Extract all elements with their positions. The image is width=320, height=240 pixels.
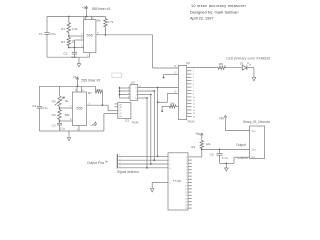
- svg-text:J13: J13: [125, 119, 130, 123]
- svg-text:R7: R7: [88, 91, 92, 95]
- svg-text:QB: QB: [119, 107, 123, 109]
- svg-text:12k: 12k: [206, 142, 211, 146]
- wire ground rail #1: [47, 56, 89, 58]
- svg-text:+5v: +5v: [90, 123, 95, 127]
- connector arrow mark: [106, 160, 109, 163]
- svg-text:Output Pins: Output Pins: [87, 161, 105, 165]
- wire junction to pin 7 #2: [59, 107, 61, 110]
- resistor R10 into U2: [162, 105, 169, 107]
- ground #1: [78, 57, 80, 64]
- wire R8 to D1: [226, 67, 243, 69]
- svg-text:555 timer #2: 555 timer #2: [82, 78, 101, 82]
- wire U3 pin stub in3: [120, 94, 131, 96]
- capacitor C3: [59, 121, 61, 123]
- svg-text:R6: R6: [97, 19, 101, 23]
- svg-text:555 timer #1: 555 timer #1: [92, 7, 111, 11]
- wire C1 to ground rail: [46, 35, 48, 57]
- svg-text:C1: C1: [39, 32, 43, 36]
- svg-text:R3: R3: [52, 100, 56, 104]
- wire R4 bottom junction: [59, 120, 61, 122]
- junction C5: [219, 149, 221, 151]
- resistor R7: [95, 90, 102, 93]
- svg-text:5k: 5k: [65, 99, 69, 103]
- resistor R8: [218, 66, 225, 69]
- wire bus line 1: [157, 88, 159, 157]
- svg-text:+5v: +5v: [73, 76, 79, 80]
- svg-text:C2: C2: [64, 52, 68, 56]
- svg-text:R9: R9: [191, 145, 195, 149]
- svg-text:C5: C5: [210, 152, 214, 156]
- wire signal 3: [118, 163, 168, 165]
- wire junction to pin 2: [69, 47, 84, 49]
- wire pin 8 stub #2: [76, 86, 78, 92]
- wire U2 to R8: [192, 67, 219, 69]
- svg-text:+5v: +5v: [219, 117, 225, 121]
- wire output drop b: [107, 105, 109, 111]
- svg-text:R2: R2: [61, 40, 65, 44]
- wire to C2: [73, 48, 75, 53]
- wire left drop #2: [39, 86, 41, 106]
- svg-text:Designed by: mark Sullivan: Designed by: mark Sullivan: [190, 10, 239, 14]
- svg-text:+5v: +5v: [82, 6, 88, 10]
- svg-text:QA: QA: [119, 103, 123, 106]
- junction R6 output: [105, 34, 107, 36]
- junction R2 C2: [68, 47, 70, 49]
- wire output pin 3: [96, 34, 153, 36]
- svg-text:C3: C3: [52, 124, 56, 128]
- svg-text:10 msec accuracy measurer: 10 msec accuracy measurer: [191, 4, 247, 8]
- connector bar: [116, 154, 118, 169]
- wire C5 bottom: [219, 156, 221, 164]
- svg-text:TT102: TT102: [173, 179, 182, 183]
- wire C4 to ground rail: [39, 109, 41, 132]
- wire LED drop: [253, 68, 255, 78]
- svg-text:74154: 74154: [187, 120, 195, 124]
- svg-text:C4: C4: [32, 104, 36, 108]
- svg-text:1.5k: 1.5k: [72, 27, 78, 31]
- connector J1 right pins: [188, 156, 192, 158]
- wire pin 4 stub: [91, 17, 93, 20]
- wire stub below R10: [161, 106, 163, 111]
- power +5v #2: [77, 78, 79, 87]
- junction C2 top: [74, 47, 76, 49]
- wire +5v rail #1: [47, 16, 106, 18]
- wire R1 to junction: [68, 33, 70, 37]
- resistor R2: [67, 38, 70, 46]
- wire pin 1 stub #2: [78, 126, 80, 132]
- wire ground rail #2: [40, 130, 104, 132]
- svg-text:Sharp_IR_Detector: Sharp_IR_Detector: [243, 120, 271, 124]
- resistor R1: [67, 23, 70, 33]
- svg-text:U3: U3: [131, 81, 135, 85]
- wire bus line 3: [150, 95, 152, 165]
- chip U2 right pins: [187, 67, 192, 69]
- faint box relic: [112, 73, 122, 78]
- wire signal 2: [118, 159, 168, 161]
- svg-text:0.5u: 0.5u: [50, 32, 56, 36]
- pot wiper arrow R3: [55, 97, 65, 106]
- wire R7 to output node: [102, 92, 104, 106]
- resistor R4: [58, 110, 61, 120]
- chip U4 box: [118, 103, 131, 119]
- wire J1 pin5: [152, 181, 168, 183]
- svg-text:R4: R4: [52, 113, 56, 117]
- wire pin 4 stub #2: [81, 86, 83, 92]
- wire output net: [202, 148, 250, 150]
- svg-text:D1: D1: [240, 62, 244, 66]
- junction out1 bus: [157, 87, 159, 89]
- wire rail to R1: [68, 17, 70, 23]
- svg-text:QD: QD: [119, 113, 123, 115]
- connector J1 box: [168, 153, 188, 210]
- svg-text:50k: 50k: [65, 113, 70, 117]
- capacitor C5: [219, 149, 221, 153]
- wire +5v to Vcc: [224, 121, 226, 131]
- capacitor C2: [72, 52, 77, 54]
- wire left drop to C1: [46, 17, 48, 33]
- wire bus line 4: [146, 98, 148, 168]
- power +5v pullup: [201, 134, 203, 136]
- wire signal 4: [118, 167, 168, 169]
- wire output pin 3 #2: [87, 104, 109, 106]
- svg-text:April 22, 1997: April 22, 1997: [190, 17, 213, 21]
- wire R6 to output node: [105, 27, 107, 35]
- wire output drop a: [103, 114, 105, 131]
- module Sharp detector box: [250, 126, 265, 159]
- wire rail to R3 pot: [59, 86, 61, 96]
- svg-text:4.7k: 4.7k: [108, 20, 114, 24]
- svg-text:74193: 74193: [131, 121, 139, 125]
- wire +5v rail #2: [40, 85, 96, 87]
- svg-text:U2: U2: [186, 61, 190, 65]
- wire D1 to corner: [247, 67, 254, 69]
- diode D1 LED: [242, 65, 247, 70]
- svg-text:GN: GN: [119, 116, 123, 118]
- wire U3 out4: [138, 97, 147, 99]
- chip U2 box: [178, 66, 186, 120]
- wire U2 left pin y93: [167, 93, 178, 95]
- wire pin 6 branch: [74, 39, 83, 41]
- wire rail to R6: [105, 17, 107, 19]
- svg-text:Ground: Ground: [238, 156, 248, 160]
- ground J1: [150, 189, 154, 192]
- wire junction to pin 6 #2: [60, 120, 73, 122]
- wire U3 out3: [138, 94, 151, 96]
- op 555 chip U5 box: [73, 92, 87, 126]
- svg-text:0.1u: 0.1u: [42, 106, 48, 110]
- junction R1 top: [68, 16, 70, 18]
- svg-text:Output: Output: [236, 143, 246, 147]
- svg-text:0.1u: 0.1u: [60, 127, 66, 131]
- svg-text:R1: R1: [61, 27, 65, 31]
- wire U3 out2: [138, 90, 155, 92]
- resistor R6: [104, 19, 107, 28]
- wire pin5 drop: [151, 182, 153, 188]
- wire U4 stub a: [115, 103, 118, 105]
- svg-text:555: 555: [76, 107, 82, 111]
- svg-text:LED primary conn #148926: LED primary conn #148926: [227, 56, 271, 60]
- wire C2 to rail: [73, 54, 75, 57]
- capacitor C1: [44, 32, 49, 34]
- wire C3 to rail: [59, 125, 61, 131]
- junction +5v #1: [86, 16, 88, 18]
- svg-text:Out: Out: [251, 149, 255, 152]
- wire rail corner to R7: [94, 86, 96, 91]
- wire R9 bottom: [201, 136, 203, 141]
- capacitor C4: [37, 106, 42, 108]
- wire output to U2: [153, 67, 179, 69]
- svg-text:R8: R8: [219, 62, 223, 66]
- wire U3 out1 to U2: [138, 87, 179, 89]
- wire bus line 2: [153, 91, 155, 160]
- wire R2 bottom: [68, 46, 70, 48]
- chip U3 box: [130, 85, 138, 101]
- svg-text:555: 555: [87, 33, 93, 37]
- ground C5: [225, 163, 227, 165]
- wire J1 pin1 to pullup: [192, 156, 202, 158]
- wire U3 pin stub in4: [120, 97, 131, 99]
- svg-text:Signal detector: Signal detector: [117, 170, 140, 174]
- wire U3 pin stub in2: [120, 90, 131, 92]
- wire output drop: [152, 35, 154, 68]
- ground #2: [68, 131, 70, 138]
- junction R1 R2 pin7: [68, 35, 70, 37]
- potentiometer R3: [58, 96, 61, 107]
- wire U2 left pin y74: [164, 74, 179, 76]
- wire pin 1 stub: [88, 53, 90, 58]
- power +5v #1: [86, 8, 88, 16]
- svg-text:QC: QC: [119, 110, 123, 112]
- junction R3 R4: [59, 107, 61, 109]
- wire pin 8 stub: [84, 17, 86, 20]
- junction +5v #2: [77, 85, 79, 87]
- svg-text:+5v: +5v: [195, 132, 201, 136]
- op 555 chip U1 box: [84, 20, 96, 53]
- resistor R9: [200, 141, 203, 149]
- wire U3 pin stub in1: [120, 87, 131, 89]
- wire U4 stub b: [115, 106, 118, 108]
- svg-text:4.7u: 4.7u: [222, 156, 228, 160]
- power +5v sharp: [224, 117, 226, 120]
- wire signal 1: [118, 155, 168, 157]
- wire U3 input bus: [119, 87, 121, 99]
- junction R9 output: [201, 149, 203, 151]
- wire sharp ground net: [233, 157, 235, 163]
- wire junction to pin 7: [69, 35, 84, 37]
- junction R7 output: [102, 104, 104, 106]
- ground LED: [252, 78, 256, 81]
- power +5v reset: [94, 124, 96, 126]
